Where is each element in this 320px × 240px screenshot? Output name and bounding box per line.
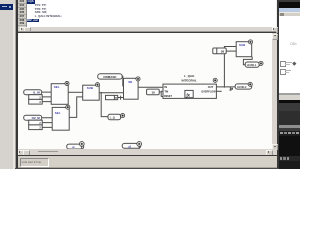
editor pane (top) — [18, 0, 277, 27]
canvas horizontal scrollbar — [18, 149, 277, 155]
breakpoint glyph on OUT wire — [229, 87, 233, 90]
desktop strip left — [0, 0, 16, 169]
annotation circle SEL1 — [65, 82, 69, 86]
wire box26 to SUB2 — [226, 50, 236, 52]
wire input1 to SEL1 — [42, 92, 51, 101]
svg-text:OVERFLOW: OVERFLOW — [201, 91, 216, 94]
init value box — [105, 96, 117, 100]
svg-text:10: 10 — [151, 91, 155, 95]
status bar — [18, 156, 277, 166]
svg-text:INTEGRAL: INTEGRAL — [181, 79, 196, 83]
junction tick riser — [223, 86, 225, 88]
probe pill bottom A — [66, 144, 83, 149]
wire SEL1 out to SUB — [68, 92, 82, 94]
splitter — [18, 30, 277, 33]
main app window frame — [15, 0, 16, 169]
svg-text:26: 26 — [221, 50, 225, 54]
block SEL1 — [51, 84, 68, 105]
annotation circle LEVEL2 — [248, 82, 252, 86]
wire riser to SUB2 — [224, 47, 236, 87]
canvas vertical scrollbar — [272, 33, 277, 149]
svg-text:L_Q: L_Q — [110, 116, 115, 120]
svg-text:ORMASK: ORMASK — [103, 75, 117, 79]
block SEL2 — [52, 108, 69, 131]
svg-text:SUB: SUB — [87, 86, 94, 90]
annotation circle SUB — [95, 83, 99, 87]
gutter line number boxes — [18, 0, 27, 27]
input cells IL_M — [29, 95, 42, 104]
junction dot — [100, 92, 102, 94]
wire init box to SD — [117, 96, 123, 100]
annotation circle SEL2 — [65, 105, 69, 109]
right background window — [279, 0, 300, 169]
annotation circle INTEGRAL — [213, 78, 217, 82]
annotation circle bottom A — [79, 142, 84, 149]
wire input2 to SEL2 — [42, 118, 52, 128]
svg-text:SEL: SEL — [54, 85, 60, 89]
svg-text:ff: ff — [115, 96, 117, 100]
background window titlebar fragment top-left — [0, 4, 13, 11]
wire box10 to TM and RESET — [159, 91, 163, 96]
pill ORMASK — [97, 74, 121, 79]
block INTEGRAL L_QAH — [163, 74, 216, 98]
block SD — [123, 79, 138, 100]
probe pill A under SUB — [108, 115, 121, 120]
annotation circle bottom B — [137, 142, 142, 149]
wire junction drop to probe A — [101, 93, 108, 117]
annotation circle probe A — [120, 114, 124, 118]
canvas pane — [18, 33, 272, 149]
value box 10 — [146, 89, 159, 95]
svg-text:∫x: ∫x — [185, 93, 190, 98]
annotation circle SD — [136, 77, 140, 81]
probe pill LEVEL1 — [245, 62, 259, 67]
svg-text:IN: IN — [164, 85, 167, 89]
wire SD out to INTEGRAL — [138, 86, 163, 88]
svg-text:SUB: SUB — [239, 43, 246, 47]
value box 26 — [213, 48, 226, 54]
wire SUB2 out to LEVEL1 — [243, 57, 252, 65]
input pill O2_M — [24, 115, 42, 120]
svg-text:at: at — [72, 145, 74, 149]
svg-text:LEVEL2: LEVEL2 — [237, 86, 247, 89]
probe pill bottom B — [122, 144, 140, 149]
svg-text:IL_M: IL_M — [33, 91, 40, 95]
svg-text:OUT: OUT — [207, 85, 213, 89]
svg-text:O2_M: O2_M — [31, 116, 40, 120]
wire INTEGRAL OUT to LEVEL2 — [216, 86, 235, 88]
annotation circle SUB2 — [248, 40, 252, 44]
editor text lines — [27, 0, 36, 4]
svg-text:LEVEL1: LEVEL1 — [247, 64, 257, 67]
editor horizontal scrollbar — [18, 27, 277, 32]
probe pill LEVEL2 — [235, 84, 251, 89]
svg-text:SEL: SEL — [55, 111, 61, 115]
svg-text:RESET: RESET — [164, 95, 172, 98]
wire ORMASK pill down to SD — [119, 76, 123, 86]
wire SEL2 out up to SUB — [69, 97, 82, 117]
block SUB — [82, 85, 98, 100]
input pill IL_M — [24, 90, 42, 95]
wire SUB out to block SD — [99, 92, 123, 94]
annotation circle LEVEL1 — [259, 62, 263, 66]
input cells O2_M — [29, 120, 42, 129]
block SUB2 — [236, 42, 251, 57]
wire OVERFLOW stub — [216, 91, 221, 93]
